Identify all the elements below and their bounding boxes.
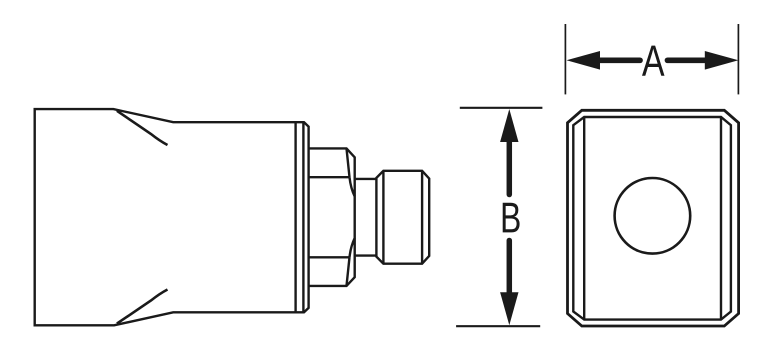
neck bottom edge: [354, 254, 376, 256]
dimension B bottom shaft: [507, 241, 513, 293]
dimension A left arrowhead: [567, 51, 601, 70]
hex nut upper flat line: [309, 176, 350, 178]
hex nut upper chamfer arc: [350, 177, 355, 196]
collar edge line left: [294, 122, 296, 312]
dimension A right shaft: [668, 57, 707, 63]
bore circle: [615, 178, 691, 254]
dimension B tick line top: [460, 107, 543, 109]
nozzle body outline (side view): [35, 109, 309, 325]
hex nut lower corner face line: [347, 257, 350, 286]
threaded stud outline: [376, 171, 429, 264]
dimension B top arrowhead: [500, 109, 518, 142]
dimension B tick line bottom: [456, 325, 540, 327]
dimension label B: [503, 203, 520, 233]
dimension B bottom arrowhead: [500, 292, 518, 325]
collar edge line right: [302, 122, 304, 312]
dimension A extension line left: [564, 24, 566, 94]
hex nut upper corner face line: [347, 148, 350, 177]
front face edge line left: [583, 117, 585, 320]
front view inner octagon: [573, 117, 731, 320]
cone edge line bottom (side view): [117, 290, 168, 324]
hex nut lower flat line: [309, 256, 350, 258]
cone edge line top (side view): [117, 111, 168, 145]
neck top edge: [354, 178, 376, 180]
dimension B top shaft: [507, 141, 513, 195]
thread line left: [382, 171, 384, 264]
dimension label A: [642, 46, 665, 76]
thread line right: [421, 171, 423, 264]
front face edge line right: [720, 117, 722, 320]
hex nut outline: [309, 148, 355, 286]
dimension A left shaft: [599, 57, 640, 63]
hex nut lower chamfer arc: [350, 238, 355, 257]
dimension A extension line right: [737, 24, 739, 94]
dimension A right arrowhead: [705, 51, 739, 70]
front view outer octagon: [568, 110, 739, 326]
